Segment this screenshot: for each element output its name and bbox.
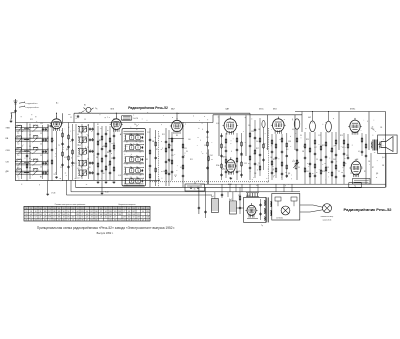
- svg-text:100: 100: [102, 173, 105, 175]
- svg-text:51к: 51к: [256, 141, 259, 143]
- svg-text:70: 70: [130, 144, 132, 146]
- svg-text:Радиоприёмник Речь-52: Радиоприёмник Речь-52: [128, 106, 168, 110]
- svg-text:15к: 15к: [163, 171, 166, 173]
- svg-text:к внутренней ант.: к внутренней ант.: [26, 106, 40, 109]
- svg-text:231: 231: [146, 211, 149, 213]
- svg-text:168: 168: [146, 217, 149, 219]
- svg-text:247: 247: [58, 214, 61, 216]
- svg-text:33: 33: [91, 217, 93, 219]
- svg-text:47: 47: [39, 217, 41, 219]
- svg-text:51к: 51к: [134, 124, 137, 126]
- svg-text:220: 220: [88, 167, 91, 169]
- svg-text:179: 179: [67, 208, 70, 210]
- svg-text:L12: L12: [77, 178, 80, 180]
- svg-text:18: 18: [100, 217, 102, 219]
- svg-text:R7: R7: [156, 149, 158, 151]
- svg-text:103: 103: [100, 214, 103, 216]
- svg-text:Напряжения замерены: Напряжения замерены: [118, 204, 136, 206]
- svg-text:C33: C33: [40, 123, 43, 125]
- svg-text:190: 190: [114, 219, 117, 221]
- svg-text:30: 30: [300, 135, 302, 137]
- svg-text:147: 147: [39, 219, 42, 221]
- svg-text:C5: C5: [350, 173, 352, 175]
- svg-text:98: 98: [81, 219, 83, 221]
- svg-text:121: 121: [142, 219, 145, 221]
- svg-text:ДВ: ДВ: [288, 173, 290, 175]
- svg-text:227: 227: [81, 208, 84, 210]
- svg-text:R17: R17: [256, 148, 259, 150]
- svg-text:36: 36: [136, 177, 138, 179]
- svg-text:6П3С: 6П3С: [350, 108, 356, 110]
- svg-text:C4: C4: [40, 143, 42, 145]
- svg-text:133: 133: [118, 211, 121, 213]
- svg-text:8 мВ: 8 мВ: [105, 192, 109, 194]
- svg-text:92: 92: [81, 217, 83, 219]
- svg-text:R22: R22: [30, 119, 33, 121]
- svg-text:C38: C38: [288, 141, 291, 143]
- svg-text:138: 138: [25, 214, 28, 216]
- svg-text:L3: L3: [18, 155, 20, 157]
- svg-text:R3: R3: [330, 151, 332, 153]
- svg-text:90: 90: [63, 211, 65, 213]
- svg-text:100: 100: [188, 139, 191, 141]
- svg-text:73: 73: [67, 219, 69, 221]
- svg-text:240: 240: [142, 208, 145, 210]
- svg-text:96: 96: [44, 208, 46, 210]
- svg-text:C12: C12: [60, 167, 63, 169]
- svg-text:Др1: Др1: [211, 196, 214, 198]
- svg-text:220: 220: [171, 155, 174, 157]
- svg-text:470: 470: [238, 171, 241, 173]
- svg-text:100: 100: [224, 147, 227, 149]
- svg-text:64: 64: [49, 214, 51, 216]
- svg-text:R1: R1: [364, 171, 366, 173]
- svg-text:120: 120: [114, 211, 117, 213]
- svg-text:C3: C3: [40, 133, 42, 135]
- svg-text:C5: C5: [124, 167, 126, 169]
- svg-text:Тр: Тр: [261, 225, 263, 227]
- svg-text:218: 218: [114, 208, 117, 210]
- svg-text:48: 48: [140, 175, 142, 177]
- svg-text:51к: 51к: [248, 125, 251, 127]
- svg-text:C7: C7: [40, 176, 42, 178]
- svg-text:27: 27: [114, 217, 116, 219]
- svg-text:132: 132: [90, 219, 93, 221]
- svg-text:102: 102: [34, 214, 37, 216]
- svg-text:ДВ: ДВ: [66, 149, 68, 151]
- svg-text:L1: L1: [18, 133, 20, 135]
- svg-text:R14: R14: [210, 155, 213, 157]
- svg-text:C41: C41: [306, 171, 309, 173]
- svg-text:C17: C17: [318, 135, 321, 137]
- svg-text:13: 13: [25, 211, 27, 213]
- svg-text:Гр: Гр: [354, 185, 356, 187]
- svg-text:C45: C45: [333, 159, 336, 161]
- svg-text:2: 2: [91, 208, 92, 210]
- svg-text:133: 133: [123, 219, 126, 221]
- svg-text:R19: R19: [340, 135, 343, 137]
- svg-text:0,1: 0,1: [358, 151, 360, 153]
- svg-text:L10: L10: [77, 156, 80, 158]
- svg-text:R19: R19: [326, 167, 329, 169]
- svg-text:64: 64: [77, 211, 79, 213]
- svg-text:175: 175: [67, 217, 70, 219]
- svg-text:195: 195: [132, 208, 135, 210]
- svg-text:L8: L8: [77, 134, 79, 136]
- svg-text:17 мВ: 17 мВ: [51, 193, 55, 195]
- svg-text:0,05: 0,05: [118, 175, 121, 177]
- svg-text:77: 77: [123, 211, 125, 213]
- svg-text:5Ц4С: 5Ц4С: [246, 195, 251, 197]
- svg-text:ДВ: ДВ: [376, 173, 378, 175]
- svg-text:R28: R28: [90, 151, 93, 153]
- svg-text:74: 74: [77, 208, 79, 210]
- svg-text:58: 58: [128, 211, 130, 213]
- svg-text:14: 14: [105, 211, 107, 213]
- svg-text:23: 23: [30, 208, 32, 210]
- svg-text:208: 208: [128, 219, 131, 221]
- svg-text:L4: L4: [18, 167, 20, 169]
- svg-text:0,25: 0,25: [64, 157, 67, 159]
- svg-text:88: 88: [53, 211, 55, 213]
- svg-text:Гр1: Гр1: [382, 157, 385, 159]
- svg-text:137: 137: [90, 211, 93, 213]
- svg-text:144: 144: [39, 214, 42, 216]
- svg-text:КВ: КВ: [382, 165, 384, 167]
- svg-text:43: 43: [128, 208, 130, 210]
- svg-text:161: 161: [34, 208, 37, 210]
- svg-text:R4: R4: [107, 152, 109, 154]
- svg-text:242: 242: [62, 219, 65, 221]
- svg-text:89: 89: [137, 219, 139, 221]
- svg-text:470: 470: [346, 155, 349, 157]
- svg-text:57: 57: [142, 217, 144, 219]
- svg-text:В1: В1: [84, 105, 86, 107]
- svg-text:37: 37: [130, 177, 132, 179]
- svg-text:L2: L2: [18, 144, 20, 146]
- svg-text:Ан: Ан: [56, 102, 58, 105]
- svg-text:16: 16: [44, 214, 46, 216]
- svg-text:УКВ: УКВ: [6, 128, 11, 130]
- svg-text:КВ: КВ: [302, 151, 304, 153]
- svg-text:244: 244: [95, 217, 98, 219]
- svg-text:163: 163: [109, 214, 112, 216]
- svg-text:12: 12: [136, 167, 138, 169]
- svg-text:C5: C5: [40, 155, 42, 157]
- svg-text:26: 26: [140, 142, 142, 144]
- svg-text:C41: C41: [78, 145, 81, 147]
- svg-text:6,8: 6,8: [170, 145, 172, 147]
- svg-text:179: 179: [123, 217, 126, 219]
- svg-text:Выпуск 1952 г.: Выпуск 1952 г.: [97, 232, 114, 235]
- svg-text:203: 203: [58, 219, 61, 221]
- svg-text:190: 190: [95, 211, 98, 213]
- svg-text:6: 6: [73, 211, 74, 213]
- svg-text:135: 135: [53, 208, 56, 210]
- svg-text:30: 30: [186, 151, 188, 153]
- svg-text:103: 103: [76, 219, 79, 221]
- svg-text:6Е5С: 6Е5С: [223, 157, 228, 159]
- svg-text:125: 125: [86, 217, 89, 219]
- svg-text:R11: R11: [74, 163, 77, 165]
- svg-text:C1: C1: [338, 171, 340, 173]
- svg-text:0,05: 0,05: [240, 155, 243, 157]
- svg-text:57: 57: [35, 217, 37, 219]
- svg-text:72: 72: [81, 214, 83, 216]
- svg-text:C6: C6: [40, 167, 42, 169]
- svg-text:231: 231: [95, 214, 98, 216]
- svg-text:Радиоприёмник Речь-52: Радиоприёмник Речь-52: [344, 207, 393, 212]
- svg-text:47: 47: [86, 219, 88, 221]
- svg-text:16: 16: [35, 211, 37, 213]
- svg-text:Режимы электронных ламп приёмн: Режимы электронных ламп приёмника: [55, 204, 85, 206]
- svg-text:19: 19: [109, 208, 111, 210]
- svg-text:183: 183: [44, 211, 47, 213]
- svg-text:111: 111: [81, 211, 84, 213]
- svg-text:108: 108: [53, 219, 56, 221]
- svg-text:КВ: КВ: [96, 157, 98, 159]
- svg-text:6Х6С: 6Х6С: [259, 109, 264, 111]
- svg-text:16: 16: [72, 219, 74, 221]
- svg-text:C21: C21: [184, 148, 187, 150]
- svg-text:75: 75: [58, 145, 60, 147]
- svg-text:128: 128: [44, 217, 47, 219]
- svg-text:243: 243: [30, 219, 33, 221]
- svg-text:108: 108: [39, 208, 42, 210]
- svg-text:169: 169: [86, 214, 89, 216]
- svg-text:177: 177: [118, 219, 121, 221]
- svg-text:88: 88: [58, 208, 60, 210]
- svg-text:196: 196: [58, 217, 61, 219]
- svg-text:213: 213: [118, 208, 121, 210]
- svg-text:200: 200: [128, 214, 131, 216]
- svg-text:18: 18: [30, 211, 32, 213]
- svg-text:122: 122: [109, 219, 112, 221]
- svg-text:Принципиальная схема радиоприё: Принципиальная схема радиоприёмника «Реч…: [37, 226, 175, 230]
- svg-text:81: 81: [136, 156, 138, 158]
- svg-text:21: 21: [49, 219, 51, 221]
- svg-text:54: 54: [136, 144, 138, 146]
- svg-text:228: 228: [72, 208, 75, 210]
- svg-text:C1: C1: [70, 117, 72, 119]
- svg-text:R9: R9: [176, 135, 178, 137]
- svg-text:235: 235: [76, 214, 79, 216]
- svg-text:59: 59: [133, 217, 135, 219]
- svg-text:127: 127: [132, 219, 135, 221]
- svg-text:C8: C8: [103, 146, 105, 148]
- svg-text:1: 1: [130, 156, 131, 158]
- svg-text:R19: R19: [222, 169, 225, 171]
- svg-text:80: 80: [67, 214, 69, 216]
- svg-text:31: 31: [39, 211, 41, 213]
- svg-text:R2: R2: [99, 140, 101, 142]
- svg-text:80: 80: [114, 214, 116, 216]
- svg-text:470: 470: [342, 147, 345, 149]
- svg-text:шкалы 6,3в: шкалы 6,3в: [323, 219, 332, 221]
- svg-text:R11: R11: [190, 159, 193, 161]
- svg-text:21: 21: [77, 217, 79, 219]
- svg-text:126: 126: [58, 211, 61, 213]
- svg-text:207: 207: [132, 211, 135, 213]
- svg-text:205: 205: [95, 219, 98, 221]
- svg-text:75: 75: [258, 163, 260, 165]
- svg-text:АПЧ: АПЧ: [228, 183, 231, 186]
- svg-text:C5: C5: [84, 119, 86, 121]
- svg-text:R25: R25: [306, 139, 309, 141]
- svg-text:14: 14: [140, 164, 142, 166]
- svg-text:R21: R21: [273, 159, 276, 161]
- svg-text:244: 244: [118, 214, 121, 216]
- svg-text:145: 145: [90, 214, 93, 216]
- svg-text:146: 146: [104, 214, 107, 216]
- svg-text:C17: C17: [204, 145, 207, 147]
- svg-text:103: 103: [132, 214, 135, 216]
- svg-text:74: 74: [53, 214, 55, 216]
- svg-text:163: 163: [128, 217, 131, 219]
- svg-text:27: 27: [100, 211, 102, 213]
- svg-text:53: 53: [147, 208, 149, 210]
- svg-text:46: 46: [86, 211, 88, 213]
- svg-text:0,1: 0,1: [180, 167, 182, 169]
- svg-text:R7: R7: [372, 167, 374, 169]
- svg-text:СВ: СВ: [380, 127, 382, 129]
- svg-text:212: 212: [30, 217, 33, 219]
- svg-text:220: 220: [206, 137, 209, 139]
- svg-text:165: 165: [146, 219, 149, 221]
- svg-text:C33: C33: [244, 163, 247, 165]
- svg-text:127/220в: 127/220в: [276, 218, 283, 220]
- svg-text:C17: C17: [314, 147, 317, 149]
- svg-text:220: 220: [34, 219, 37, 221]
- svg-text:29: 29: [105, 208, 107, 210]
- svg-text:19: 19: [130, 167, 132, 169]
- svg-text:7: 7: [124, 208, 125, 210]
- svg-text:179: 179: [48, 217, 51, 219]
- svg-text:30: 30: [298, 167, 300, 169]
- svg-text:0,05: 0,05: [216, 123, 219, 125]
- svg-text:C12: C12: [147, 132, 150, 134]
- svg-text:L5: L5: [18, 177, 20, 179]
- svg-text:6,8: 6,8: [286, 149, 288, 151]
- svg-text:90: 90: [142, 211, 144, 213]
- svg-text:R27: R27: [322, 145, 325, 147]
- svg-text:19: 19: [53, 217, 55, 219]
- svg-text:к наружной ант.: к наружной ант.: [26, 102, 39, 105]
- svg-text:C9: C9: [316, 159, 318, 161]
- svg-text:142: 142: [30, 214, 33, 216]
- svg-text:15к: 15к: [344, 163, 347, 165]
- svg-text:81: 81: [63, 208, 65, 210]
- svg-text:89: 89: [109, 217, 111, 219]
- svg-text:C11: C11: [111, 158, 114, 160]
- svg-text:26: 26: [105, 217, 107, 219]
- svg-text:6Н7: 6Н7: [308, 117, 311, 119]
- svg-text:18: 18: [63, 217, 65, 219]
- svg-text:R1: R1: [97, 124, 99, 126]
- svg-text:39: 39: [25, 208, 27, 210]
- svg-text:117: 117: [48, 211, 51, 213]
- svg-text:Зв: Зв: [194, 189, 196, 191]
- svg-text:158: 158: [109, 211, 112, 213]
- svg-text:Др2: Др2: [229, 199, 232, 201]
- svg-text:СВ: СВ: [6, 162, 10, 164]
- svg-text:157: 157: [72, 217, 75, 219]
- svg-text:R3: R3: [146, 159, 148, 161]
- svg-text:Диапазоны: Диапазоны: [129, 134, 138, 136]
- svg-text:C1: C1: [108, 165, 110, 167]
- svg-text:149: 149: [62, 214, 65, 216]
- svg-text:8: 8: [138, 208, 139, 210]
- svg-text:121: 121: [137, 214, 140, 216]
- svg-text:6,8: 6,8: [292, 129, 294, 131]
- svg-text:C52: C52: [238, 195, 241, 197]
- svg-text:16: 16: [67, 211, 69, 213]
- svg-text:102: 102: [100, 208, 103, 210]
- svg-text:1: 1: [147, 214, 148, 216]
- svg-text:C30: C30: [251, 131, 254, 133]
- svg-text:R11: R11: [162, 134, 165, 136]
- svg-text:57: 57: [140, 152, 142, 154]
- svg-text:110: 110: [44, 219, 47, 221]
- svg-text:R28: R28: [322, 171, 325, 173]
- svg-text:C9: C9: [113, 143, 115, 145]
- svg-text:150: 150: [25, 217, 28, 219]
- svg-text:130: 130: [25, 219, 28, 221]
- svg-text:Пд: Пд: [95, 108, 97, 110]
- svg-text:R1: R1: [140, 171, 142, 173]
- svg-text:лампочка освещ.: лампочка освещ.: [321, 216, 334, 218]
- svg-text:120: 120: [48, 208, 51, 210]
- svg-text:СВ: СВ: [368, 161, 370, 163]
- svg-text:0,25: 0,25: [292, 161, 295, 163]
- svg-text:178: 178: [137, 217, 140, 219]
